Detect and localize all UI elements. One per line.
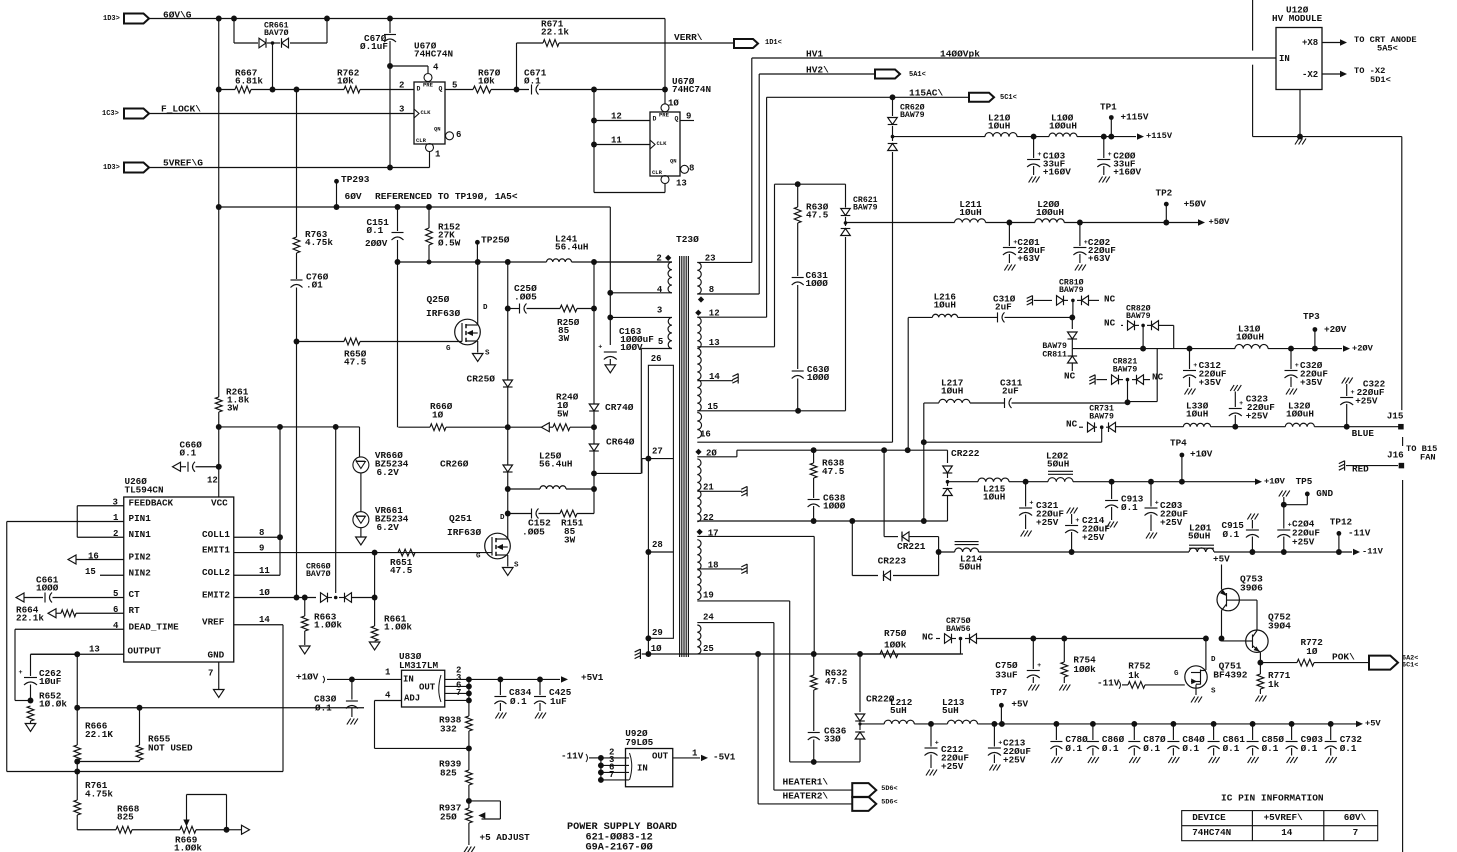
svg-text:IN: IN [1279, 54, 1290, 64]
svg-text:1.ØØk: 1.ØØk [174, 843, 202, 852]
wire HV1 vertical [751, 58, 753, 262]
junction CR821 node [1125, 399, 1131, 405]
inductor L215 10uH [978, 478, 1009, 482]
node 115AC output connector 5C1 [969, 93, 994, 102]
ground pin21 [746, 486, 748, 496]
diode CR260 [507, 427, 509, 465]
diode CR250 [503, 380, 513, 387]
winding secondary 24-25 [697, 625, 701, 654]
capacitor C913 0.1 [1111, 482, 1113, 499]
junction R754 [1061, 636, 1067, 642]
wire -11V row [979, 551, 1189, 553]
svg-text:1.ØØk: 1.ØØk [314, 620, 342, 631]
svg-text:PRE: PRE [659, 112, 670, 119]
svg-text:D: D [417, 85, 421, 92]
svg-text:IC PIN INFORMATION: IC PIN INFORMATION [1221, 793, 1324, 804]
node TP5 test point GND [1279, 491, 1283, 497]
svg-text:VREF: VREF [202, 617, 225, 628]
svg-text:RT: RT [129, 605, 141, 616]
resistor R664 22.1k [61, 610, 76, 617]
svg-text:+1ØV: +1ØV [1264, 477, 1286, 487]
svg-text:D: D [653, 115, 657, 122]
svg-text:1D3>: 1D3> [103, 164, 120, 172]
svg-text:LM317LM: LM317LM [399, 660, 438, 671]
winding primary 3-5 [668, 317, 672, 348]
svg-text:5: 5 [452, 80, 457, 90]
junction C638 bottom [811, 518, 817, 524]
capacitor C202 220uF +63V [1079, 223, 1081, 247]
svg-text:.Ø1: .Ø1 [306, 280, 323, 291]
svg-text:1Ø: 1Ø [432, 410, 444, 421]
inductor L217 10uH [939, 399, 970, 403]
svg-text:7: 7 [609, 770, 614, 780]
svg-text:R75Ø: R75Ø [884, 628, 907, 639]
svg-text:+25V: +25V [941, 761, 964, 772]
wire Q251 gate row EMIT1 [234, 552, 492, 554]
svg-text:NC: NC [1066, 419, 1078, 430]
svg-text:TP25Ø: TP25Ø [481, 235, 510, 246]
primary return symbol R663 [299, 646, 310, 654]
svg-text:+35V: +35V [1199, 377, 1222, 388]
svg-text:22.1K: 22.1K [85, 729, 113, 740]
svg-text:Ø.1: Ø.1 [1301, 743, 1318, 754]
wire pin11 [594, 144, 650, 146]
wire pin24 drop [773, 623, 775, 791]
wire +10V row to LM317 [140, 707, 365, 709]
svg-text:56.4uH: 56.4uH [539, 459, 572, 470]
wire OUTPUT pin13 [31, 653, 124, 655]
svg-text:TL594CN: TL594CN [125, 485, 164, 496]
svg-text:PRE: PRE [423, 82, 434, 89]
svg-text:332: 332 [440, 724, 457, 735]
svg-text:6.2V: 6.2V [377, 522, 400, 533]
diode CR223 with loop [851, 521, 853, 576]
svg-text:CR811: CR811 [1042, 351, 1067, 360]
junction C200 [1101, 134, 1107, 140]
junction pin3 tie [607, 314, 613, 320]
svg-text:22.1k: 22.1k [541, 27, 569, 38]
wire crossing vertical x1252 [1252, 0, 1254, 51]
shield tap 29 [645, 635, 651, 641]
wire COLL1 pin8 [234, 536, 280, 538]
wire -X2 arrow [1322, 73, 1340, 75]
wire pin5 link [594, 472, 641, 474]
svg-text:Ø.1: Ø.1 [1223, 529, 1240, 540]
svg-text:23: 23 [705, 253, 716, 263]
svg-text:1ØuH: 1ØuH [988, 121, 1010, 132]
svg-text:TP293: TP293 [341, 174, 370, 185]
svg-text:29: 29 [652, 628, 663, 638]
wire +5V rail [978, 723, 1357, 725]
capacitor C861 0.1 [1211, 721, 1217, 727]
svg-text:4.75k: 4.75k [305, 237, 333, 248]
resistor R670 10k [473, 86, 491, 93]
svg-text:6.2V: 6.2V [377, 467, 400, 478]
capacitor C780 0.1 [1053, 721, 1059, 727]
svg-text:15: 15 [707, 402, 718, 412]
ground pin18 [746, 564, 748, 574]
svg-text:OUT: OUT [419, 682, 436, 692]
wire HV1 1400Vpk row [752, 57, 1276, 59]
IC U260 TL594CN [124, 497, 234, 662]
capacitor C631 1000 [797, 223, 799, 276]
svg-text:+: + [935, 739, 939, 747]
junction TP12 [1336, 549, 1342, 555]
resistor R671 22.1k [517, 42, 544, 44]
node POK output connector [1369, 656, 1398, 670]
svg-text:8: 8 [259, 528, 264, 538]
wire pin25 [697, 653, 758, 655]
wire pin12 [697, 316, 766, 318]
svg-text:D: D [1211, 656, 1216, 664]
svg-text:BAV7Ø: BAV7Ø [306, 569, 331, 579]
wire U120 ground pin [1299, 90, 1301, 137]
svg-text:4: 4 [657, 285, 663, 295]
wire R670 to C671 [491, 89, 529, 91]
node J16 terminal [1399, 463, 1405, 469]
resistor R632 47.5 [813, 654, 815, 675]
wire pin27 link [642, 458, 649, 460]
wire +115V row [893, 136, 986, 138]
ground C201 [1004, 265, 1008, 271]
svg-text:Ø.1: Ø.1 [524, 76, 541, 87]
svg-text:27: 27 [652, 446, 663, 456]
wire COLL1-COLL2 tie [279, 427, 281, 575]
svg-text:74HC74N: 74HC74N [414, 49, 453, 60]
primary return symbol R661 [369, 642, 380, 650]
svg-text:TP12: TP12 [1330, 517, 1353, 528]
resistor R151 85 3W [560, 510, 577, 517]
wire pin10/pin25 bottom rail [642, 653, 698, 655]
svg-text:2Ø: 2Ø [706, 448, 717, 458]
svg-text:NC: NC [1104, 294, 1116, 305]
wire L250 row [508, 488, 540, 490]
wire CR661 left leg [233, 19, 235, 44]
wire pin9 stub [680, 120, 694, 122]
ground C834 [495, 713, 499, 719]
diode CR661 (dual BAV70) [259, 38, 266, 48]
svg-text:1ØuH: 1ØuH [983, 492, 1005, 503]
resistor R661 1.00k [371, 626, 378, 641]
svg-text:Ø.1: Ø.1 [1223, 743, 1240, 754]
junction C214 [1069, 549, 1075, 555]
svg-text:-11V: -11V [1097, 678, 1120, 689]
winding primary 2-4 [668, 262, 672, 293]
svg-text:TP1: TP1 [1100, 102, 1117, 113]
capacitor C103 33uF +160V [1033, 137, 1035, 158]
capacitor C214 220uF +25V (grounded top) [1067, 508, 1071, 514]
wire FF1 pin1 to 5VREF [429, 151, 431, 168]
svg-text:QN: QN [670, 158, 677, 165]
svg-text:+: + [998, 739, 1002, 747]
wire x665 to FF2 PRE [664, 19, 666, 104]
svg-text:47.5: 47.5 [806, 210, 829, 221]
svg-text:13: 13 [89, 644, 100, 654]
wire center-tap feed x610 [609, 207, 611, 345]
wire C151 column to rail [397, 262, 399, 427]
node TP250 test point [475, 240, 480, 245]
svg-text:5: 5 [658, 337, 663, 347]
svg-text:TP2: TP2 [1156, 188, 1173, 199]
svg-text:1D3>: 1D3> [103, 15, 120, 23]
resistor R937 250 trimmer [466, 808, 473, 823]
wire C671 to FF2 [539, 89, 665, 91]
svg-text:Ø.1uF: Ø.1uF [360, 41, 388, 52]
resistor R939 825 [468, 748, 470, 770]
svg-text:6.81k: 6.81k [235, 76, 263, 87]
wire return rail y427 right [398, 426, 430, 428]
wire L217 feed [923, 403, 925, 521]
wire FEEDBACK pin3 [77, 505, 124, 507]
wire U260 rail y427 left [219, 426, 360, 428]
wire R671 branch [516, 43, 518, 90]
svg-text:+115V: +115V [1146, 131, 1173, 141]
ground C321 [1021, 531, 1025, 537]
svg-text:+5ØV: +5ØV [1184, 199, 1207, 210]
zener VR661 BZ5234 6.2V [353, 512, 369, 528]
wire pin17 [697, 535, 814, 537]
svg-text:14: 14 [709, 372, 720, 382]
svg-text:19: 19 [703, 590, 714, 600]
svg-text:1ØØuH: 1ØØuH [1049, 121, 1077, 132]
svg-text:1ØØk: 1ØØk [1073, 664, 1096, 675]
wire pin16 [697, 441, 892, 443]
svg-text:39Ø4: 39Ø4 [1268, 621, 1291, 632]
wire base row y638.5/640.5 [1203, 636, 1209, 642]
ground C212 [926, 770, 930, 776]
svg-text:G: G [476, 553, 481, 561]
flip-flop U670 74HC74N (second) [650, 112, 680, 176]
svg-text:FAN: FAN [1420, 453, 1436, 463]
wire R661 column [374, 553, 376, 626]
wire VREF pin14 [234, 624, 283, 626]
svg-text:+: + [1351, 389, 1355, 397]
wire VREF loop bottom [7, 771, 283, 773]
svg-text:+: + [1037, 151, 1041, 159]
wire PIN1 [7, 521, 124, 523]
svg-text:CR221: CR221 [897, 541, 926, 552]
zener VR660 BZ5234 6.2V [353, 457, 369, 473]
junction C321 [1023, 479, 1029, 485]
junction C670 top [387, 16, 393, 22]
ground Q751 source [1191, 697, 1195, 703]
wire pin16 right segment [924, 441, 1102, 443]
inductor L216 10uH [932, 314, 957, 317]
junction C913 [1109, 479, 1115, 485]
svg-text:+: + [598, 343, 602, 351]
resistor R762 10k [344, 86, 360, 93]
wire pin22 [697, 520, 947, 522]
svg-text:-11V: -11V [1348, 528, 1371, 539]
svg-text:6ØV\: 6ØV\ [1344, 812, 1367, 823]
capacitor C310 2uF [997, 312, 999, 322]
ground C903 [1287, 757, 1291, 763]
svg-text:+5V1: +5V1 [581, 672, 604, 683]
net -5V1 arrow [701, 755, 708, 761]
ground C312 [1185, 389, 1189, 395]
wire L216 feed [907, 318, 909, 451]
svg-text:17: 17 [708, 528, 719, 538]
svg-text:EMIT2: EMIT2 [202, 590, 230, 601]
ground R937 [464, 847, 468, 852]
svg-text:+25V: +25V [1082, 532, 1105, 543]
resistor R652 10.0k [27, 706, 34, 721]
winding secondary 20-22 [697, 459, 701, 522]
capacitor C638 1000 [813, 478, 815, 498]
capacitor C630 1000 [792, 370, 804, 372]
wire pin20 with jog [697, 456, 737, 458]
wire right edge vertical lower [1402, 480, 1404, 852]
wire R937 bypass loop [469, 800, 501, 802]
ground pin10 [639, 649, 641, 659]
resistor R240 10 5W [553, 424, 570, 431]
wire pin21 [697, 490, 742, 492]
inductor L200 100uH [1035, 219, 1064, 223]
svg-text:1uF: 1uF [550, 696, 567, 707]
svg-text:BAW79: BAW79 [1113, 366, 1138, 375]
svg-text:1ØuH: 1ØuH [959, 207, 981, 218]
svg-text:14: 14 [1281, 827, 1293, 838]
svg-text:2: 2 [399, 80, 404, 90]
svg-text:BAW79: BAW79 [1059, 286, 1084, 295]
svg-text:5A1<: 5A1< [909, 71, 926, 79]
junction CR661 right leg [324, 16, 330, 22]
node HEATER2 connector 5D6 [852, 797, 876, 811]
wire loop top y184 [775, 183, 846, 185]
svg-text:S: S [485, 350, 490, 358]
wire pin13 [697, 346, 774, 348]
svg-text:G: G [446, 345, 451, 353]
svg-text:D: D [483, 304, 488, 312]
resistor R763 4.75k [296, 90, 298, 238]
ground C320 [1286, 389, 1290, 395]
node TP1 test point [1109, 115, 1114, 120]
resistor R655 NOT USED [139, 708, 141, 745]
svg-text:4: 4 [385, 690, 391, 700]
svg-text:1ØØk: 1ØØk [884, 640, 907, 651]
svg-text:5W: 5W [557, 409, 569, 420]
svg-text:Ø.1: Ø.1 [1102, 743, 1119, 754]
svg-text:1ØuF: 1ØuF [39, 676, 62, 687]
resistor R761 4.75k [76, 772, 78, 801]
wire +20V rail [1072, 348, 1235, 350]
ground R771 [1255, 696, 1259, 702]
svg-text:CR64Ø: CR64Ø [606, 437, 635, 448]
ground C200 [1099, 177, 1103, 183]
inductor L250 56.4uH [540, 486, 566, 489]
svg-text:NIN2: NIN2 [129, 568, 152, 579]
junction C322 [1344, 424, 1350, 430]
svg-text:Ø.1: Ø.1 [1262, 743, 1279, 754]
resistor R752 1k [1128, 682, 1145, 689]
svg-text:14: 14 [259, 615, 270, 625]
wire F_LOCK to CLK [149, 113, 414, 115]
svg-text:2uF: 2uF [1002, 386, 1019, 397]
svg-text:+: + [1108, 151, 1112, 159]
shield tap 27 [645, 456, 651, 462]
svg-text:NC: NC [1104, 318, 1116, 329]
junction L250 left [505, 486, 511, 492]
svg-text:1: 1 [435, 149, 441, 159]
svg-text:1ØØØ: 1ØØØ [806, 278, 829, 289]
capacitor C671 0.1 [531, 85, 533, 95]
ground J16 hatch [1344, 461, 1346, 471]
capacitor C213 220uF +25V [993, 724, 995, 747]
diode CR811 (dual BAW79) [1071, 317, 1073, 329]
wire FF2 CLR loop [594, 192, 665, 194]
svg-text:1ØuH: 1ØuH [934, 300, 956, 311]
ground C870 [1129, 757, 1133, 763]
primary return symbol Q251 source [502, 568, 513, 576]
wire U920 output [673, 757, 700, 759]
junction R152 top [426, 204, 432, 210]
svg-text:NIN1: NIN1 [129, 529, 152, 540]
winding secondary 15-16 [697, 413, 701, 439]
svg-text:.ØØ5: .ØØ5 [514, 292, 537, 303]
primary return symbol C163 [605, 365, 616, 373]
net +20V arrow [1343, 345, 1350, 351]
svg-text:Ø.1: Ø.1 [315, 703, 332, 714]
svg-text:3W: 3W [564, 535, 576, 546]
node TP7 test point [999, 703, 1004, 708]
svg-text:Ø.1: Ø.1 [1143, 743, 1160, 754]
svg-text:VERR\: VERR\ [674, 32, 703, 43]
capacitor C311 2uF [1004, 398, 1006, 408]
svg-text:22: 22 [703, 513, 714, 523]
wire HEATER2 [758, 803, 852, 805]
diode CR810 (dual BAW79) with hatch [1032, 295, 1034, 305]
wire CR661 right leg [326, 19, 328, 44]
svg-text:1ØuH: 1ØuH [1186, 409, 1208, 420]
junction C203 [1148, 479, 1154, 485]
svg-text:Ø.1: Ø.1 [1182, 743, 1199, 754]
wire CT pin5 [16, 593, 24, 602]
svg-text:+16ØV: +16ØV [1113, 167, 1141, 178]
capacitor C661 1000 [44, 593, 46, 603]
primary return symbol R652 [30, 721, 32, 723]
svg-text:1Øk: 1Øk [478, 76, 495, 87]
svg-text:TP3: TP3 [1303, 311, 1320, 322]
svg-text:RED: RED [1352, 464, 1369, 475]
svg-text:CR74Ø: CR74Ø [605, 402, 634, 413]
svg-text:5D6<: 5D6< [881, 799, 897, 807]
svg-text:D: D [500, 514, 505, 522]
svg-text:+16ØV: +16ØV [1043, 167, 1071, 178]
svg-text:DEVICE: DEVICE [1192, 812, 1226, 823]
svg-text:39Ø6: 39Ø6 [1240, 583, 1263, 594]
phasing dot pin20 [695, 449, 701, 455]
resistor R938 332 [466, 716, 473, 731]
junction C213 [991, 721, 997, 727]
svg-text:G9A-2167-ØØ: G9A-2167-ØØ [586, 841, 653, 852]
svg-text:HEATER2\: HEATER2\ [783, 791, 829, 802]
ground C913 [1107, 522, 1111, 528]
inductor L212 5uH [884, 720, 914, 724]
capacitor C204 220uF +25V [1283, 505, 1285, 529]
resistor R666 22.1K [76, 708, 78, 745]
ground C213 [989, 765, 993, 771]
wire pin18 [697, 568, 742, 570]
resistor R660 10 [430, 424, 446, 431]
ground U120 [1295, 139, 1299, 145]
svg-text:+25V: +25V [1036, 517, 1059, 528]
wire BLUE row (J15) [1116, 426, 1184, 428]
svg-text:56.4uH: 56.4uH [555, 242, 588, 253]
resistor R250 85 3W [560, 305, 577, 312]
wire 60V vertical x218 [218, 19, 220, 398]
ground C840 [1168, 757, 1172, 763]
inductor L330 10uH [1183, 423, 1210, 426]
